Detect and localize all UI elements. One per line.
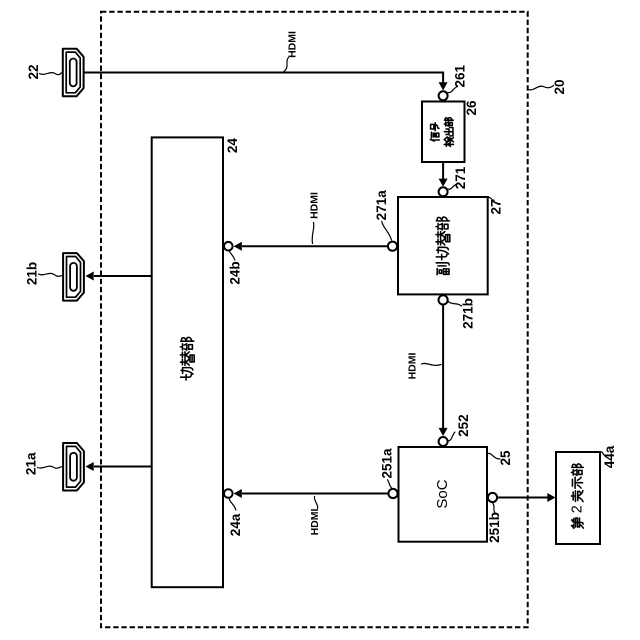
text 切替部: [180, 337, 194, 380]
node 261: [439, 91, 448, 100]
svg-text:251b: 251b: [487, 512, 502, 543]
wire box26 to node 271: [442, 162, 444, 180]
label 271b leader: [448, 302, 461, 307]
svg-text:21a: 21a: [24, 452, 39, 475]
HDMI connector 21a: [63, 443, 84, 491]
label 44a leader: [601, 452, 606, 456]
svg-text:HDMI: HDMI: [309, 509, 321, 536]
arrow into node 252: [439, 428, 448, 436]
HDMI label on wire 271a-24b: [312, 223, 314, 244]
label 261 leader: [448, 87, 458, 93]
dashed enclosure box 20: [101, 12, 528, 628]
arrow into node 24a: [234, 489, 242, 498]
node 251b: [488, 493, 497, 502]
node 271b: [439, 295, 448, 304]
label 251b leader: [493, 503, 495, 513]
wire 271b to 252: [442, 305, 444, 429]
svg-text:26: 26: [464, 100, 479, 116]
label 27 leader: [488, 197, 494, 200]
svg-text:HDMI: HDMI: [287, 31, 299, 58]
svg-text:22: 22: [26, 64, 41, 79]
node 24b: [224, 242, 233, 251]
wire from connector 22 to node 261: [84, 72, 444, 74]
text 副切替部: [436, 217, 450, 275]
node 271a: [388, 242, 397, 251]
HDMI label on wire 271b-252: [422, 363, 442, 365]
label 21a leader: [38, 466, 63, 468]
text line2 検出部: [444, 118, 453, 147]
arrow into node 261: [439, 82, 448, 90]
svg-text:SoC: SoC: [434, 479, 451, 508]
svg-text:251a: 251a: [380, 448, 395, 479]
sub switching box 27: [398, 197, 488, 294]
label 271a leader: [382, 222, 392, 241]
signal detection box 26: [422, 102, 465, 163]
label 252 leader: [448, 432, 455, 441]
svg-text:24a: 24a: [228, 513, 243, 536]
main switching box 24: [152, 137, 223, 587]
svg-text:2: 2: [570, 505, 586, 513]
label 20 leader: [528, 86, 553, 90]
node 271: [439, 187, 448, 196]
label 271 leader: [448, 184, 458, 189]
HDMI label on wire 251a-24a: [314, 497, 317, 509]
arrow into node 271: [439, 179, 448, 187]
wire box24 to connector 21b: [94, 275, 152, 277]
HDMI connector 21b: [63, 253, 84, 301]
arrow into node 24b: [234, 242, 242, 251]
svg-text:21b: 21b: [25, 262, 40, 285]
svg-text:27: 27: [489, 199, 504, 214]
arrow into connector 21b: [86, 272, 94, 281]
svg-text:271: 271: [453, 166, 468, 189]
label 24b leader: [230, 252, 235, 261]
svg-text:271a: 271a: [374, 190, 389, 221]
svg-text:24: 24: [225, 138, 240, 154]
label 22 leader: [40, 73, 63, 75]
second display box 44a: [556, 452, 600, 544]
svg-text:HDMI: HDMI: [308, 192, 320, 219]
HDMI connector 22: [63, 49, 84, 96]
wire box24 to connector 21a: [94, 466, 152, 468]
text 信号検出部 (2 lines): [430, 123, 439, 141]
wire 271a to 24b: [242, 245, 387, 247]
svg-text:252: 252: [456, 414, 471, 437]
svg-text:271b: 271b: [461, 298, 476, 329]
node 24a: [224, 489, 233, 498]
node 252: [439, 437, 448, 446]
svg-text:HDMI: HDMI: [407, 353, 419, 380]
HDMI label on wire 22-261: [284, 58, 289, 72]
wire 251b to display box: [498, 497, 547, 499]
label 251a leader: [388, 480, 393, 489]
SoC box 25: [399, 447, 488, 542]
text 第2表示部: [570, 464, 586, 528]
label 25 leader: [488, 453, 500, 459]
wire 251a to 24a: [242, 493, 387, 495]
svg-text:20: 20: [552, 79, 567, 94]
arrow into connector 21a: [86, 462, 94, 471]
svg-text:25: 25: [498, 450, 513, 466]
node 251a: [388, 489, 397, 498]
arrow into display box 44a: [547, 493, 555, 502]
label 21b leader: [39, 273, 63, 276]
svg-text:44a: 44a: [602, 445, 617, 468]
svg-text:24b: 24b: [227, 261, 242, 284]
svg-text:261: 261: [453, 64, 468, 87]
label 24a leader: [229, 499, 236, 510]
